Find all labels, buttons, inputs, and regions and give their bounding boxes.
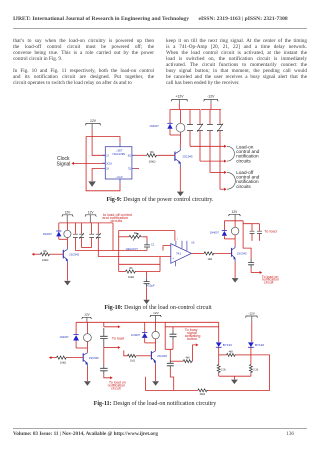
- svg-text:1kΩ: 1kΩ: [130, 358, 135, 362]
- svg-text:12V: 12V: [232, 210, 239, 214]
- svg-text:circuits: circuits: [236, 184, 251, 189]
- transistor Q3 2SC945: [232, 246, 248, 262]
- relay contact S2 (NC): [197, 110, 203, 162]
- wire 12V drop to J pin: [92, 130, 105, 155]
- relay coil K3: [231, 221, 239, 239]
- svg-text:1kΩ: 1kΩ: [207, 257, 212, 261]
- capacitor C1: [142, 237, 155, 251]
- svg-text:-: -: [172, 244, 173, 248]
- svg-text:2SC945: 2SC945: [89, 356, 99, 360]
- relay coil K2: [64, 223, 71, 239]
- wire top bus: [76, 321, 219, 323]
- capacitor C6: [167, 360, 174, 391]
- svg-text:circuit: circuit: [264, 281, 273, 285]
- wire emitter to ground: [155, 365, 157, 382]
- svg-text:Signal: Signal: [57, 161, 71, 167]
- wire Q output: [135, 154, 146, 156]
- svg-text:12V: 12V: [88, 210, 95, 214]
- diode D6 BY133: [216, 342, 232, 347]
- capacitor C3: [248, 259, 254, 273]
- svg-text:To load: To load: [112, 336, 124, 340]
- svg-text:2SC945: 2SC945: [182, 155, 193, 159]
- wire diode-coil bridge: [59, 238, 68, 240]
- transistor Q1 2SC945: [175, 147, 193, 167]
- wire busy loop top: [165, 322, 219, 349]
- wire S1 to load-on tap: [190, 145, 227, 148]
- wire base feed: [124, 350, 128, 355]
- svg-text:Rk: Rk: [150, 150, 154, 154]
- relay contact S3: [207, 110, 213, 173]
- ground (Q3 emitter): [232, 278, 239, 283]
- node label to load on notification: [262, 275, 279, 285]
- svg-text:10kΩ: 10kΩ: [199, 393, 205, 396]
- node label to load off circuits: [102, 213, 132, 223]
- wire right supply bus: [201, 109, 221, 111]
- resistor R5 2.2k vertical: [217, 355, 226, 376]
- wire S4 to load-off tap: [220, 188, 227, 191]
- svg-text:10kΩ: 10kΩ: [60, 360, 66, 364]
- diode D2 1N4007: [43, 223, 62, 239]
- timing network frame: [119, 231, 175, 272]
- svg-text:U8: U8: [191, 241, 195, 244]
- wire stair link: [165, 349, 173, 359]
- relay contact S6 (NC): [79, 223, 84, 248]
- svg-text:1N4007: 1N4007: [60, 335, 70, 339]
- wire S8 to noninverting row: [98, 256, 171, 258]
- power 12V rail D: [82, 313, 92, 323]
- wire diode-coil bridge: [76, 347, 87, 349]
- resistor R1k: [204, 252, 215, 261]
- svg-text:Ra: Ra: [134, 231, 138, 235]
- brace load-off: [227, 172, 235, 189]
- wire notification branch: [243, 224, 251, 259]
- wire bus end drop: [218, 322, 220, 342]
- capacitor contact to load: [100, 322, 124, 349]
- svg-text:BY126: BY126: [255, 343, 264, 347]
- wire left supply bus: [170, 109, 200, 111]
- wire D7 to node B: [250, 347, 252, 355]
- node label clock signal: [57, 156, 71, 167]
- wire node row: [236, 354, 251, 356]
- wire contact feed drop: [112, 223, 114, 251]
- svg-text:10kΩ: 10kΩ: [149, 160, 157, 164]
- wire S3 to load-off tap: [210, 171, 227, 174]
- node label to load on notification: [108, 381, 126, 391]
- svg-text:-12V: -12V: [207, 95, 215, 99]
- power -12V rail: [204, 95, 219, 110]
- resistor R2 10k: [56, 356, 67, 364]
- wire bottom return: [146, 377, 198, 391]
- resistor R7 bottom 10k: [198, 389, 208, 396]
- capacitor C2 10uF: [144, 272, 155, 300]
- svg-text:741: 741: [176, 251, 181, 255]
- svg-text:1N4007: 1N4007: [210, 231, 220, 235]
- ground (node): [231, 376, 238, 384]
- power 12V rail (IC supply): [85, 119, 101, 130]
- svg-text:button: button: [187, 337, 197, 341]
- diode D4 1N4007: [60, 322, 80, 348]
- diode D3 1N4007: [210, 221, 227, 239]
- wire Rk to base: [158, 154, 175, 156]
- relay coil K5: [152, 322, 159, 343]
- svg-text:7Q: 7Q: [128, 168, 131, 171]
- FIG10: [28, 206, 290, 306]
- svg-text:2.2k: 2.2k: [253, 368, 258, 371]
- capacitor C4: [100, 348, 113, 380]
- svg-text:Rb: Rb: [129, 266, 133, 270]
- power -12V rail F: [245, 312, 257, 323]
- op IC U1 74HC109N: [102, 143, 135, 184]
- svg-text:10kΩ: 10kΩ: [128, 275, 134, 279]
- svg-text:→SET: →SET: [115, 148, 123, 152]
- relay contact S7: [89, 223, 94, 248]
- op-amp U2 741: [171, 239, 195, 266]
- diode D5 1N4007: [131, 322, 148, 343]
- wire load contact feed: [243, 221, 252, 224]
- FIG11: [40, 308, 280, 400]
- ground (Q4): [84, 381, 91, 386]
- relay contact S4 (NC): [217, 110, 223, 190]
- relay contact S10 (to load): [252, 224, 262, 241]
- wire -12V drop: [251, 322, 253, 342]
- svg-text:2SC945: 2SC945: [69, 253, 79, 257]
- svg-text:7: 7: [177, 239, 179, 241]
- wire op-amp output: [191, 252, 204, 254]
- node label load-off circuits: [236, 170, 260, 189]
- svg-text:10kΩ-POT: 10kΩ-POT: [126, 247, 139, 251]
- wire to notification tap: [251, 271, 262, 274]
- wire right bus: [224, 220, 243, 222]
- wire top bus: [59, 222, 113, 224]
- wire coil-diode bottom bridge: [170, 134, 181, 136]
- wire R3 to base: [137, 355, 152, 357]
- wire collector riser: [86, 348, 88, 353]
- power 12V rail C: [228, 210, 240, 221]
- resistor R6 2.2k vertical: [249, 355, 258, 376]
- svg-text:-12V: -12V: [248, 312, 255, 316]
- relay contact S5: [73, 223, 78, 251]
- wire S5 to inverting row: [75, 250, 147, 252]
- power 12V rail E: [150, 311, 162, 322]
- wire diode-coil bridge: [145, 342, 156, 344]
- ground (Q2 emitter): [64, 281, 71, 286]
- svg-text:12V: 12V: [65, 210, 72, 214]
- svg-text:74HC109N: 74HC109N: [112, 152, 125, 156]
- wire right return loop: [207, 355, 270, 391]
- wire clock input with arrow: [32, 253, 40, 256]
- svg-text:+10μF: +10μF: [147, 283, 155, 287]
- svg-text:To load: To load: [264, 230, 276, 234]
- capacitor C5: [170, 327, 177, 350]
- svg-text:circuit: circuit: [111, 386, 121, 390]
- resistor Rk2 10k: [40, 249, 51, 262]
- ground (Q5): [152, 381, 159, 386]
- svg-text:circuits: circuits: [236, 158, 251, 163]
- brace load-on: [227, 146, 234, 161]
- wire emitter to ground: [234, 262, 236, 278]
- svg-text:2J: 2J: [106, 154, 109, 157]
- wire diode-coil bridge: [224, 238, 235, 240]
- svg-text:1K: 1K: [106, 168, 109, 171]
- wire resistor bottoms: [219, 375, 251, 377]
- wire collector to coil: [179, 144, 181, 147]
- FIG9: [40, 92, 280, 204]
- svg-text:+: +: [172, 256, 174, 260]
- svg-text:+12V: +12V: [175, 95, 184, 99]
- wire clock input: [71, 162, 105, 165]
- svg-text:12V: 12V: [84, 313, 90, 317]
- wire op-amp pin7 riser: [174, 231, 176, 241]
- svg-text:10kΩ: 10kΩ: [42, 258, 48, 262]
- svg-text:12V: 12V: [90, 119, 97, 123]
- wire K pin to ground: [92, 169, 102, 181]
- relay coil K1: [176, 110, 185, 136]
- wire S2 to load-on tap: [200, 160, 227, 163]
- transistor Q2 2SC945: [63, 247, 79, 263]
- wire input with arrow: [49, 356, 57, 359]
- wire SET/CLR loop: [86, 137, 120, 191]
- node label busy signal button: [185, 328, 201, 341]
- relay contact S1: [187, 110, 193, 147]
- svg-text:4k8: 4k8: [185, 357, 190, 360]
- relay coil K4: [84, 322, 92, 348]
- svg-text:4k8: 4k8: [229, 351, 234, 354]
- svg-text:2SC945: 2SC945: [157, 354, 167, 358]
- diode D7 BY126: [248, 342, 264, 347]
- diode D1 1N4007 flyback: [149, 110, 172, 136]
- ground (IC): [88, 181, 95, 187]
- ground (C2): [143, 300, 149, 304]
- wire S6-S7 link: [82, 247, 92, 249]
- transistor Q5 2SC945: [151, 351, 167, 365]
- wire collector riser: [66, 239, 68, 247]
- svg-text:1N4007: 1N4007: [43, 232, 53, 236]
- resistor R8 busy tap 4k8: [170, 357, 192, 363]
- wire emitter to ground: [66, 263, 68, 281]
- wire collector riser: [155, 343, 157, 351]
- potentiometer Ra 10k-POT: [119, 231, 142, 251]
- wire collector riser: [180, 135, 182, 144]
- svg-text:1N4007: 1N4007: [149, 124, 159, 128]
- svg-text:C1: C1: [151, 243, 155, 247]
- relay contact S8 (NC): [96, 223, 101, 257]
- wire R2 to base: [67, 357, 83, 359]
- resistor Rk 10k: [146, 150, 158, 164]
- wire inverting input: [163, 246, 171, 251]
- svg-text:12V: 12V: [153, 311, 159, 315]
- wire emitter to ground: [179, 167, 181, 192]
- wire collector riser: [234, 239, 236, 246]
- power +12V rail: [171, 95, 188, 110]
- svg-text:2SC945: 2SC945: [237, 251, 247, 255]
- svg-text:6Q: 6Q: [128, 154, 131, 157]
- svg-text:1N4007: 1N4007: [131, 333, 141, 337]
- transistor Q4 2SC945: [83, 353, 99, 367]
- wire Qbar stub: [135, 168, 139, 170]
- resistor R3 1k: [128, 354, 137, 362]
- power 12V rail B: [85, 210, 96, 223]
- relay contact S9 (to load): [250, 224, 255, 241]
- wire emitter to ground: [86, 367, 88, 382]
- svg-text:→CLR: →CLR: [115, 175, 123, 179]
- wire busy tap arrow: [193, 343, 199, 361]
- node label load-on circuits: [236, 145, 260, 164]
- svg-text:2.2k: 2.2k: [221, 368, 226, 371]
- wire to Q3 base: [215, 252, 232, 254]
- resistor R4 4k8: [219, 351, 236, 357]
- power 12V rail A: [62, 210, 73, 223]
- svg-text:BY133: BY133: [223, 343, 232, 347]
- resistor Rb 10k: [119, 264, 160, 279]
- wire D6 to node A: [218, 347, 220, 355]
- wire Rk2 to base: [50, 253, 63, 255]
- svg-text:3CLK: 3CLK: [106, 162, 112, 165]
- svg-text:circuits: circuits: [111, 219, 123, 223]
- ground (emitter): [177, 192, 184, 197]
